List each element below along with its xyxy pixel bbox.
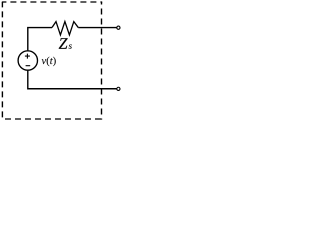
- dashed enclosure box: left edge: [1, 2, 3, 120]
- wire: source top terminal up and right to resistor: [28, 28, 52, 51]
- label Z_s: [59, 38, 72, 49]
- wire: source bottom terminal down and right to terminal b: [28, 71, 117, 89]
- terminal a (open circle): [117, 26, 120, 29]
- resistor Zs (zigzag): [52, 22, 78, 35]
- label v(t): [42, 57, 56, 67]
- dashed enclosure box: right edge: [101, 2, 103, 120]
- voltage source U1 (circle): [18, 51, 37, 70]
- dashed enclosure box: top edge: [2, 1, 102, 3]
- - polarity mark: [26, 65, 31, 67]
- terminal b (open circle): [117, 87, 120, 90]
- + polarity mark: [25, 54, 30, 59]
- dashed enclosure box: bottom edge: [2, 118, 102, 120]
- wire: resistor to terminal a: [78, 27, 117, 29]
